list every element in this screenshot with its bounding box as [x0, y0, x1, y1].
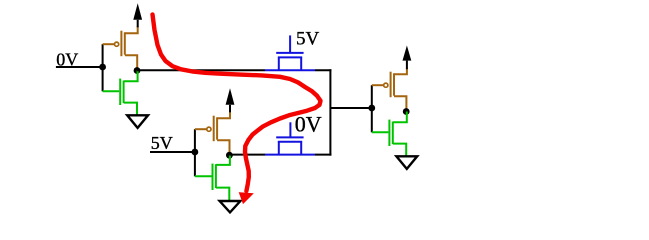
svg-text:5V: 5V	[296, 28, 320, 49]
transistor M8 NMOS	[372, 112, 407, 156]
power VDD1 arrow	[133, 3, 142, 27]
wire U2 gate vertical	[194, 129, 196, 176]
wire tgate right vertical	[329, 69, 331, 155]
wire tgate bottom right	[315, 154, 331, 156]
wire tgate top right	[315, 69, 331, 71]
wire A out1 to gate	[137, 69, 265, 71]
power VDD2 arrow	[226, 88, 235, 112]
transistor M3 PMOS	[195, 111, 230, 155]
power VDD3 arrow	[403, 46, 412, 70]
transistor M2 NMOS	[103, 71, 138, 115]
node OUT2	[226, 152, 233, 159]
transistor M4 NMOS	[195, 155, 230, 200]
svg-text:0V: 0V	[295, 111, 322, 136]
ground GND3	[396, 156, 417, 169]
node OUT3	[403, 108, 410, 115]
junction IN3	[368, 105, 375, 112]
ground GND2	[220, 201, 241, 212]
wire B out2 to tgate	[229, 154, 265, 156]
transistor M5 NMOS pass	[265, 35, 315, 70]
junction IN1	[99, 64, 106, 71]
wire mid to inv3	[330, 107, 371, 109]
ground GND1	[127, 115, 148, 128]
annotation red signal path arrow	[153, 15, 321, 192]
wire IN2 input	[150, 151, 195, 153]
wire U3 gate vertical	[371, 85, 373, 132]
wire U1 gate vertical	[102, 44, 104, 91]
transistor M6 PMOS pass	[265, 122, 315, 154]
annotation red arrowhead	[239, 193, 252, 204]
wire IN1 input	[56, 66, 103, 68]
svg-text:5V: 5V	[151, 133, 173, 153]
transistor M1 PMOS	[103, 26, 138, 70]
node OUT1	[134, 67, 141, 74]
transistor M7 PMOS	[372, 69, 407, 112]
junction IN2	[192, 149, 199, 156]
